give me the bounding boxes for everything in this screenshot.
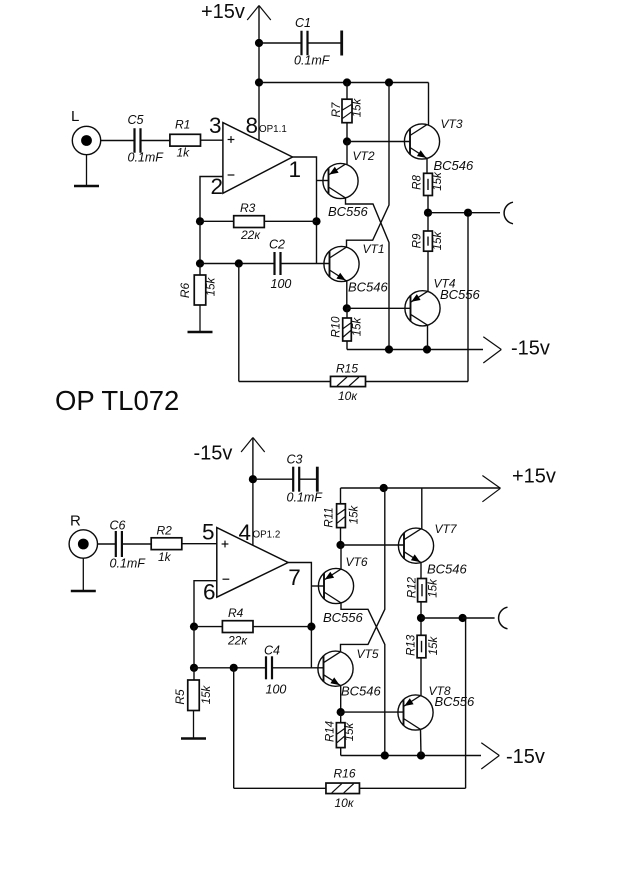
svg-text:10к: 10к [338,389,358,403]
svg-text:0.1mF: 0.1mF [287,491,324,505]
svg-text:6: 6 [203,580,216,605]
svg-text:100: 100 [266,683,287,697]
svg-text:7: 7 [288,565,301,590]
svg-text:C6: C6 [110,519,126,533]
svg-text:R8: R8 [412,175,424,190]
svg-text:0.1mF: 0.1mF [110,557,147,571]
svg-text:15k: 15k [352,316,364,336]
svg-text:R3: R3 [240,201,256,215]
svg-text:R2: R2 [157,524,173,538]
svg-text:R: R [70,513,81,530]
svg-text:+15v: +15v [512,466,556,488]
svg-text:15k: 15k [428,635,440,655]
svg-text:-15v: -15v [194,443,233,465]
svg-text:VT2: VT2 [353,149,375,163]
svg-text:VT1: VT1 [363,242,385,256]
svg-text:15k: 15k [206,276,218,296]
svg-text:1: 1 [289,157,302,182]
svg-text:-15v: -15v [506,746,545,768]
svg-text:3: 3 [209,113,222,138]
svg-text:VT3: VT3 [441,117,463,131]
svg-text:R10: R10 [331,316,343,338]
svg-text:R13: R13 [406,634,418,656]
svg-text:OP TL072: OP TL072 [55,385,179,416]
svg-text:15k: 15k [201,684,213,704]
svg-text:R11: R11 [324,507,336,527]
svg-text:BC556: BC556 [328,204,369,219]
svg-text:R9: R9 [412,233,424,248]
svg-text:0.1mF: 0.1mF [294,54,331,68]
svg-text:VT6: VT6 [346,555,368,569]
svg-text:R16: R16 [334,767,356,781]
svg-text:R5: R5 [173,689,187,705]
svg-text:15k: 15k [344,721,356,741]
svg-text:100: 100 [271,277,292,291]
svg-text:-15v: -15v [511,338,550,360]
svg-text:R12: R12 [407,576,419,598]
svg-text:8: 8 [246,113,259,138]
svg-text:15k: 15k [432,171,444,191]
svg-text:C3: C3 [287,453,303,467]
svg-text:C1: C1 [295,16,311,30]
svg-text:15k: 15k [432,230,444,250]
svg-text:22к: 22к [240,228,261,242]
svg-text:15k: 15k [352,97,364,117]
svg-text:VT5: VT5 [357,647,379,661]
svg-text:15k: 15k [349,504,361,524]
svg-text:R1: R1 [175,118,190,132]
svg-text:2: 2 [211,174,224,199]
svg-text:BC546: BC546 [434,158,475,173]
svg-text:C4: C4 [264,644,280,658]
svg-text:4: 4 [239,520,252,545]
svg-text:BC556: BC556 [440,287,481,302]
svg-text:BC556: BC556 [323,610,364,625]
svg-text:R4: R4 [228,606,244,620]
svg-text:10к: 10к [335,796,355,810]
svg-text:BC546: BC546 [427,562,468,577]
svg-text:15k: 15k [428,578,440,598]
svg-text:C5: C5 [128,113,144,127]
svg-text:OP1.2: OP1.2 [253,529,281,540]
svg-text:C2: C2 [269,238,285,252]
svg-text:R7: R7 [331,102,343,117]
svg-text:5: 5 [202,520,215,545]
svg-text:+15v: +15v [201,1,245,23]
svg-text:BC546: BC546 [341,684,382,699]
svg-text:BC556: BC556 [435,694,476,709]
svg-text:1k: 1k [177,146,191,160]
svg-text:R6: R6 [178,283,192,299]
svg-text:BC546: BC546 [348,280,389,295]
svg-text:R15: R15 [336,362,358,376]
svg-text:OP1.1: OP1.1 [259,124,287,135]
svg-text:22к: 22к [227,634,248,648]
svg-text:VT7: VT7 [435,522,458,536]
svg-text:L: L [71,108,79,125]
svg-text:R14: R14 [325,721,337,742]
svg-text:0.1mF: 0.1mF [128,151,165,165]
svg-text:1k: 1k [158,550,172,564]
